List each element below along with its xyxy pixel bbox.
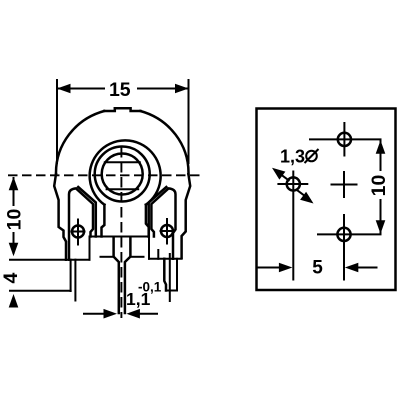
dimension 5: right line	[356, 267, 377, 269]
left rivet vertical line	[77, 220, 79, 245]
center cross mark	[332, 184, 357, 186]
right rivet horizontal line	[161, 230, 174, 232]
right wing groove line	[149, 187, 167, 237]
left leg inner line	[74, 260, 76, 301]
svg-text:15: 15	[109, 79, 131, 101]
dimension 10 left: dim line lower	[13, 233, 15, 253]
hole top right: horizontal line	[310, 138, 381, 140]
dimension 1,1: right arrowhead	[126, 309, 139, 319]
dimension 5: left line	[259, 267, 282, 269]
left rivet circle	[72, 226, 84, 238]
right wing tab	[151, 188, 175, 258]
boss neck left	[102, 205, 105, 237]
pedestal line left	[101, 256, 114, 258]
svg-text:5: 5	[312, 258, 323, 279]
svg-text:1,3: 1,3	[280, 147, 305, 167]
hole left: vertical line	[292, 172, 294, 280]
dimension 15: dim line right segment	[138, 88, 188, 90]
hole bottom right: circle	[337, 228, 350, 241]
dimension 10 right: dim line lower	[380, 200, 382, 233]
boss middle circle	[95, 147, 150, 202]
dimension 4: lower extension line	[10, 290, 71, 292]
screw slot top chord	[105, 161, 140, 163]
leader arrowhead lower-right	[300, 192, 313, 204]
center recess bottom line	[90, 236, 150, 238]
hole left: circle	[287, 177, 300, 190]
leader line upper-left	[277, 172, 289, 181]
pedestal line right	[130, 256, 143, 258]
left wing groove line	[78, 187, 96, 237]
dimension 4: bottom arrowhead pointing up	[9, 294, 19, 308]
hole top right: circle	[338, 133, 351, 146]
dimension 10 left: dim line upper	[13, 178, 15, 205]
center stub left	[114, 237, 119, 313]
recess left connector	[89, 237, 91, 260]
svg-text:-0,1: -0,1	[138, 280, 162, 295]
body left side	[54, 174, 66, 260]
dimension 1,1: left arrow tail	[84, 313, 106, 315]
dimension 5: left arrowhead	[279, 263, 293, 273]
horizontal center line (dashed)	[8, 174, 201, 176]
vertical center line (dashed) through boss and pin	[120, 147, 122, 318]
right rivet vertical line	[166, 219, 168, 244]
dimension 10 right: bottom arrowhead	[376, 220, 386, 234]
recess right connector	[148, 237, 150, 259]
right leg left side	[164, 259, 166, 291]
body right side	[182, 174, 191, 258]
screw slot bottom chord	[107, 188, 139, 190]
hole top right: vertical line	[343, 123, 345, 156]
svg-text:10: 10	[3, 209, 25, 231]
dimension 10 right: dim line upper	[380, 141, 382, 170]
dome outline	[56, 111, 104, 174]
right leg bottom cap	[166, 290, 177, 292]
left leg outer line	[70, 260, 72, 291]
right leg right side	[176, 259, 178, 291]
hole left: horizontal line	[278, 183, 307, 185]
boss inner circle	[102, 154, 143, 195]
leader arrowhead upper-left	[272, 168, 285, 180]
right wing inner tick	[157, 250, 159, 259]
dimension 1,1: left arrowhead	[104, 309, 118, 319]
hole bottom right: vertical line	[343, 215, 345, 280]
dimension 10 right: top arrowhead	[376, 140, 386, 154]
right rivet circle	[161, 225, 173, 237]
dimension 1,1: right arrow tail	[138, 313, 158, 315]
boss neck right	[146, 205, 149, 237]
left wing bottom edge	[10, 259, 90, 261]
leader line lower-right	[298, 191, 310, 200]
hole bottom right: horizontal line	[318, 233, 381, 235]
dimension 10 left: top arrowhead	[9, 177, 19, 191]
svg-text:10: 10	[368, 175, 390, 197]
screw boss outer circle with neck	[90, 140, 161, 204]
left rivet horizontal line	[72, 231, 85, 233]
left wing tab	[69, 188, 93, 259]
PCB rectangle	[257, 109, 396, 291]
right leg center line	[169, 254, 171, 301]
dimension 15: left arrowhead	[57, 84, 71, 94]
dimension 15: extension line right	[188, 80, 190, 163]
dimension 15: extension line left	[56, 80, 58, 163]
dimension 15: right arrowhead	[175, 84, 189, 94]
svg-text:4: 4	[0, 272, 22, 283]
right wing bottom edge	[149, 258, 182, 260]
dimension 5: right arrowhead	[345, 263, 359, 273]
diameter symbol	[305, 149, 319, 163]
dimension 10 left: bottom arrowhead	[9, 243, 19, 257]
center stub right	[125, 237, 130, 313]
dimension 15: dim line left segment	[58, 88, 104, 90]
dome top bump	[104, 108, 140, 111]
